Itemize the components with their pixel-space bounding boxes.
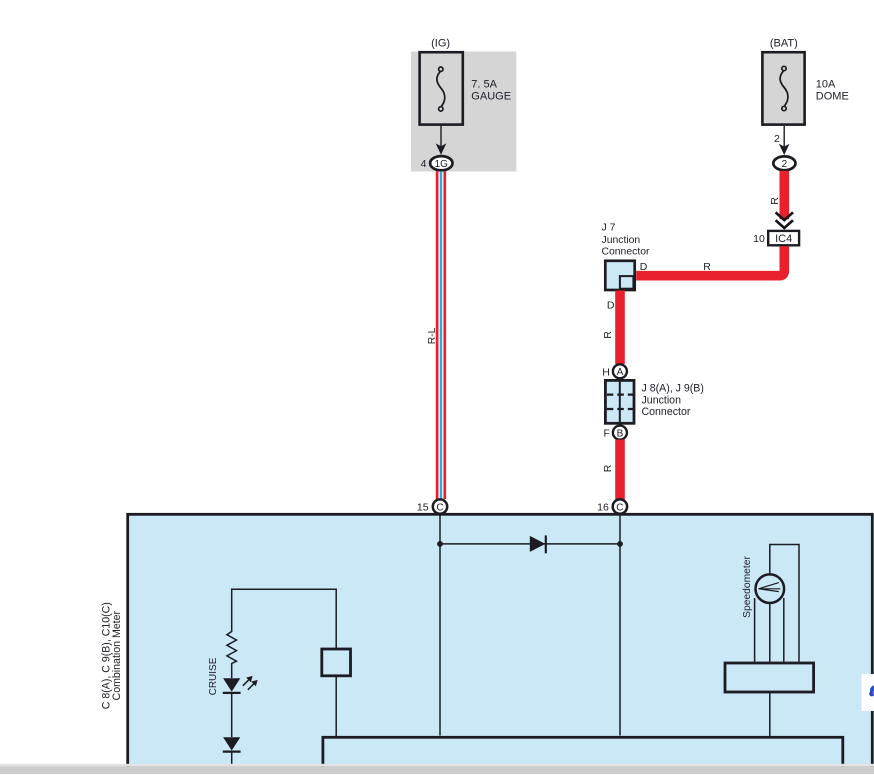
fuse element symbol (IG) [437, 67, 445, 111]
terminal circle B [613, 426, 627, 440]
pin label D (below J7) [607, 300, 615, 312]
fuse box (IG) 7.5A GAUGE [420, 52, 463, 124]
svg-text:Junction: Junction [642, 394, 682, 406]
pin label F [603, 428, 609, 440]
svg-text:Connector: Connector [602, 246, 650, 257]
svg-text:GAUGE: GAUGE [471, 90, 511, 102]
svg-text:IC4: IC4 [775, 233, 792, 245]
label (BAT) [770, 37, 798, 49]
svg-text:H: H [602, 366, 610, 378]
arrow from fuse (BAT) to terminal [779, 126, 790, 155]
svg-text:10: 10 [753, 233, 765, 245]
arrow from fuse (IG) to terminal [436, 126, 447, 155]
label R-L [427, 327, 438, 344]
terminal circle C (pin 15) [433, 499, 447, 513]
wire R from terminal 2 to splice [779, 171, 789, 219]
resistor R (cruise) [227, 632, 237, 679]
label 7.5A GAUGE [471, 79, 511, 103]
diode D1 (between branch 15 and 16) [530, 535, 546, 553]
label 10A DOME [816, 79, 849, 103]
label C 8(A), C 9(B), C10(C) Combination Meter [100, 602, 123, 709]
svg-text:Connector: Connector [642, 406, 691, 418]
connector IC4 [768, 231, 799, 245]
label CRUISE [208, 657, 219, 695]
svg-text:(BAT): (BAT) [770, 37, 798, 49]
speedometer gauge circle [756, 574, 785, 603]
diode D2 (below cruise LED) [223, 737, 241, 766]
terminal circle A [613, 364, 627, 378]
junction connector J8/J9 [605, 380, 634, 423]
svg-text:Speedometer: Speedometer [742, 556, 753, 618]
svg-text:R-L: R-L [427, 327, 438, 344]
svg-text:D: D [607, 300, 615, 312]
svg-text:2: 2 [774, 133, 780, 145]
terminal ellipse 2 [773, 156, 795, 170]
terminal circle C (pin 16) [613, 499, 627, 513]
LED emission arrows [243, 676, 258, 690]
svg-text:DOME: DOME [816, 90, 849, 102]
speedometer leads [755, 598, 784, 662]
svg-text:15: 15 [417, 502, 429, 514]
svg-text:J 8(A), J 9(B): J 8(A), J 9(B) [642, 383, 704, 395]
svg-text:R: R [769, 197, 781, 205]
wire from pin 15 down inside meter [439, 514, 441, 736]
svg-text:F: F [603, 428, 609, 440]
svg-text:2: 2 [782, 159, 788, 170]
splice chevron [776, 212, 793, 228]
label J 8(A), J 9(B) Junction Connector [642, 383, 704, 418]
fuse element symbol (BAT) [780, 66, 788, 110]
combination meter box C 8(A), C 9(B), C10(C) [128, 514, 873, 778]
pin number 15 [417, 502, 429, 514]
component square in meter [322, 649, 351, 676]
wire speedometer block to inner block [769, 692, 771, 737]
svg-text:D: D [640, 261, 648, 273]
svg-text:R: R [602, 464, 614, 472]
svg-text:10A: 10A [816, 79, 836, 91]
junction dot right [617, 541, 623, 547]
pin number 16 [597, 502, 609, 514]
wire R from B to pin 16 [615, 440, 625, 500]
label Speedometer [742, 556, 753, 618]
fuse holder gray background (IG) [411, 52, 516, 172]
label (IG) [431, 37, 450, 49]
svg-text:(IG): (IG) [431, 37, 450, 49]
label R (horizontal wire) [703, 261, 711, 273]
svg-text:A: A [617, 367, 624, 378]
inner block rectangle at bottom of meter [323, 737, 843, 779]
svg-text:J 7: J 7 [602, 223, 616, 234]
label J 7 Junction Connector [602, 223, 650, 258]
pin label H [602, 366, 610, 378]
speedometer block [725, 663, 814, 692]
fuse box (BAT) 10A DOME [762, 52, 804, 124]
svg-text:16: 16 [597, 502, 609, 514]
svg-text:C: C [616, 502, 623, 513]
wire loop of CRUISE branch [232, 589, 337, 648]
wire from square to inner block [335, 676, 337, 737]
wire R from J7 to A [615, 291, 625, 365]
svg-text:Junction: Junction [602, 235, 641, 246]
svg-text:CRUISE: CRUISE [208, 657, 219, 695]
svg-text:C: C [436, 502, 443, 513]
wire R from IC4 to J7 [636, 246, 784, 276]
wire R-L (red/blue striped) [437, 171, 445, 499]
pin number 2 (upper) [774, 133, 780, 145]
pin label D (right of J7) [640, 261, 648, 273]
label R (vertical, B to 16) [602, 464, 614, 472]
label R (vertical) [769, 197, 781, 205]
svg-text:7. 5A: 7. 5A [471, 79, 497, 91]
LED CRUISE indicator [223, 678, 241, 737]
bottom scrollbar [0, 764, 874, 774]
svg-text:R: R [602, 331, 614, 339]
wire from pin 16 down inside meter [619, 514, 621, 736]
svg-text:R: R [703, 261, 711, 273]
speedometer needle [759, 583, 781, 592]
junction connector J7 [605, 261, 634, 290]
junction dot left [437, 541, 443, 547]
svg-text:1G: 1G [435, 159, 449, 170]
speedometer wire loop [770, 545, 799, 662]
svg-text:Combination Meter: Combination Meter [111, 610, 123, 700]
wire between node 15 branch and node 16 branch [440, 543, 620, 545]
popup panel at right edge [862, 674, 874, 711]
svg-text:B: B [617, 428, 624, 439]
terminal ellipse 1G [430, 156, 452, 170]
svg-text:4: 4 [421, 158, 427, 170]
pin number 4 [421, 158, 427, 170]
label R (vertical, J7 to A) [602, 331, 614, 339]
pin number 10 [753, 233, 765, 245]
